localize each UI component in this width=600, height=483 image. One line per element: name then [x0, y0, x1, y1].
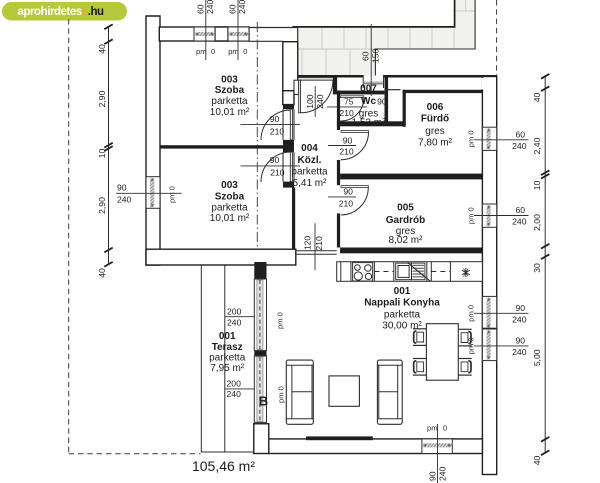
- svg-text:pm 0: pm 0: [276, 312, 285, 329]
- svg-text:gres: gres: [425, 126, 444, 137]
- wall right exterior: [482, 77, 496, 475]
- svg-text:60: 60: [515, 129, 525, 139]
- entry west corner piece: [294, 80, 299, 94]
- svg-text:240: 240: [237, 0, 247, 14]
- svg-text:240: 240: [512, 314, 527, 324]
- svg-text:210: 210: [270, 126, 285, 136]
- svg-text:200: 200: [227, 378, 242, 388]
- svg-text:90: 90: [343, 135, 353, 145]
- terrace glazed door 2 (200/240) B: [254, 356, 266, 422]
- door gardrob (90/210): [341, 186, 368, 188]
- leader window top2: [237, 0, 239, 60]
- svg-text:pm 0: pm 0: [277, 386, 286, 403]
- label 90/240 south window: [437, 424, 439, 483]
- leader window wc: [370, 24, 372, 96]
- svg-text:2,40: 2,40: [532, 137, 542, 154]
- label 90/240 nappali window1: [474, 312, 529, 314]
- label 200/240 terrace door1: [225, 316, 254, 318]
- svg-text:007: 007: [360, 83, 377, 94]
- draining rack: [408, 263, 431, 282]
- svg-text:2,90: 2,90: [97, 90, 107, 107]
- terrace outline: [201, 265, 254, 452]
- svg-text:Közl.: Közl.: [298, 155, 322, 166]
- door wc (75/210): [340, 96, 364, 98]
- kitchen counter: [337, 262, 483, 282]
- chair right bottom: [458, 359, 471, 376]
- label 90/240 nappali window2: [474, 345, 529, 347]
- svg-text:240: 240: [205, 0, 215, 14]
- svg-text:210: 210: [314, 236, 324, 251]
- shaft south edge line: [385, 89, 401, 91]
- svg-text:100: 100: [305, 94, 315, 109]
- svg-text:75: 75: [344, 96, 354, 106]
- svg-text:001: 001: [219, 331, 236, 342]
- svg-text:parketta: parketta: [211, 203, 248, 214]
- terrace glazed door 1 (200/240): [254, 279, 266, 351]
- svg-text:pm: pm: [228, 47, 239, 56]
- svg-text:5,00: 5,00: [532, 349, 542, 366]
- svg-text:7,95 m²: 7,95 m²: [210, 363, 245, 374]
- svg-text:8,02 m²: 8,02 m²: [389, 235, 424, 246]
- label 90/210 door 003 upper: [241, 124, 301, 126]
- svg-text:001: 001: [394, 286, 411, 297]
- svg-text:parketta: parketta: [211, 96, 248, 107]
- wall wc north: [337, 91, 385, 95]
- chair right top: [458, 329, 471, 346]
- svg-text:10: 10: [97, 149, 107, 159]
- svg-text:parketta: parketta: [291, 166, 328, 177]
- lichthof tiled area: [298, 0, 475, 76]
- koezl south opening threshold lines: [296, 251, 337, 254]
- svg-text:90: 90: [270, 114, 280, 124]
- svg-text:90: 90: [270, 155, 280, 165]
- svg-text:0: 0: [443, 424, 447, 433]
- wall fuerdo west upper: [403, 90, 406, 127]
- wall sw corner block: [254, 424, 269, 454]
- svg-text:240: 240: [227, 317, 242, 327]
- sofa right: [377, 360, 402, 424]
- wall wc east: [385, 77, 389, 122]
- svg-text:90: 90: [515, 303, 525, 313]
- svg-text:200: 200: [227, 306, 242, 316]
- door fuerdo (90/210): [341, 131, 369, 133]
- label 100/240 entrance door: [314, 86, 316, 117]
- door entrance leaf: [299, 80, 301, 113]
- svg-text:60: 60: [361, 51, 371, 61]
- svg-text:5,41 m²: 5,41 m²: [293, 178, 328, 189]
- window top 1 (60/240): [194, 27, 215, 41]
- svg-text:Gardrób: Gardrób: [386, 215, 425, 226]
- svg-text:004: 004: [301, 143, 318, 154]
- svg-text:Wc: Wc: [361, 96, 376, 107]
- label 90/240 left window: [116, 192, 182, 194]
- label 90/210 fuerdo door: [328, 145, 356, 147]
- wall wc south: [337, 121, 406, 126]
- wall top exterior (room 003): [159, 27, 249, 41]
- svg-text:10: 10: [532, 181, 542, 191]
- label 90/210 gardrob door: [328, 196, 356, 198]
- svg-text:Nappali Konyha: Nappali Konyha: [364, 298, 440, 309]
- sofa left: [286, 360, 313, 424]
- svg-text:210: 210: [339, 198, 354, 208]
- svg-text:006: 006: [427, 102, 444, 113]
- dimension chain left: [104, 24, 112, 266]
- wall jamb door2 south: [283, 182, 294, 188]
- svg-text:60: 60: [515, 205, 525, 215]
- svg-text:7,80 m²: 7,80 m²: [418, 138, 453, 149]
- svg-text:30,00 m²: 30,00 m²: [382, 320, 422, 331]
- svg-text:pm 0: pm 0: [467, 207, 476, 224]
- svg-text:90: 90: [117, 183, 127, 193]
- svg-text:0: 0: [243, 47, 247, 56]
- door entrance (100/240): [300, 80, 333, 113]
- svg-text:B: B: [259, 394, 268, 409]
- svg-text:60: 60: [228, 4, 238, 14]
- section dash-dot line: [256, 22, 258, 283]
- svg-text:210: 210: [339, 146, 354, 156]
- window nappali south (90/240): [422, 439, 453, 454]
- door1 jamb edges: [283, 109, 294, 140]
- wall lichthof south: [298, 75, 364, 78]
- lichthof borders: [293, 0, 455, 27]
- wall koezl west lower thin: [292, 188, 295, 251]
- boundary dashed line bottom: [69, 453, 201, 455]
- label 75/210 wc door: [327, 106, 367, 108]
- svg-text:210: 210: [270, 168, 285, 178]
- logo aprohirdetese.hu: [2, 2, 127, 21]
- svg-text:Szoba: Szoba: [215, 85, 245, 96]
- wall hollow koezl west upper: [283, 42, 298, 91]
- svg-text:90: 90: [427, 471, 437, 481]
- svg-text:parketta: parketta: [384, 310, 421, 321]
- window mullion: [482, 328, 496, 331]
- sink: [396, 263, 412, 280]
- wall jamb pier between doors: [283, 140, 294, 152]
- svg-text:240: 240: [227, 389, 242, 399]
- svg-text:240: 240: [117, 195, 132, 205]
- svg-text:2,90: 2,90: [97, 197, 107, 214]
- entry east jamb block: [333, 77, 337, 94]
- svg-text:240: 240: [512, 217, 527, 227]
- label 90/210 door 003 lower: [241, 165, 301, 167]
- svg-text:90: 90: [377, 97, 387, 107]
- svg-text:40: 40: [97, 44, 107, 54]
- wall nappali west top block: [254, 262, 266, 279]
- svg-text:003: 003: [221, 180, 238, 191]
- window top 2 (60/240): [228, 27, 249, 41]
- window nappali right 1 (90/240): [482, 296, 496, 329]
- svg-text:60: 60: [195, 4, 205, 14]
- coffee table: [329, 376, 359, 406]
- boundary dashed line left: [68, 19, 70, 454]
- svg-text:40: 40: [532, 93, 542, 103]
- wall left exterior: [146, 16, 160, 265]
- svg-text:240: 240: [315, 94, 325, 109]
- window left (90/240): [146, 177, 160, 209]
- window fuerdo right (60/240): [482, 127, 496, 150]
- leader window top1: [205, 0, 207, 60]
- svg-text:40: 40: [97, 268, 107, 278]
- label 60/240 fuerdo window: [474, 139, 529, 141]
- svg-text:105,46 m²: 105,46 m²: [192, 458, 255, 474]
- label 200/240 terrace door2: [225, 388, 254, 390]
- wall fuerdo north: [403, 90, 485, 93]
- wall between rooms 003: [160, 145, 283, 148]
- entry area top line: [249, 27, 298, 29]
- svg-text:Terasz: Terasz: [212, 342, 243, 353]
- window gardrob right (60/240): [482, 204, 496, 227]
- dark rail segment in south wall: [306, 436, 373, 440]
- svg-text:40: 40: [532, 456, 542, 466]
- dining table: [426, 324, 458, 381]
- wall pier between top windows: [215, 27, 228, 41]
- svg-text:10,01 m²: 10,01 m²: [210, 213, 250, 224]
- wall south of lower room 003: [146, 249, 296, 265]
- svg-text:30: 30: [532, 263, 542, 273]
- svg-text:parketta: parketta: [209, 352, 246, 363]
- svg-text:10,01 m²: 10,01 m²: [210, 107, 250, 118]
- door room 003 lower (90/210): [261, 152, 291, 182]
- boundary dashed line top right: [496, 0, 498, 77]
- svg-text:0: 0: [211, 47, 215, 56]
- wall jamb door1 north: [283, 105, 294, 110]
- svg-text:aprohirdetese.hu: aprohirdetese.hu: [18, 6, 105, 18]
- wall nappali south: [269, 439, 483, 454]
- svg-text:005: 005: [397, 203, 414, 214]
- svg-text:2,00: 2,00: [532, 214, 542, 231]
- svg-text:pm: pm: [427, 424, 438, 433]
- svg-text:pm 0: pm 0: [467, 305, 476, 322]
- stove 4 burners: [353, 263, 373, 281]
- wall nappali west mid pier: [254, 351, 266, 356]
- svg-text:150: 150: [371, 48, 381, 63]
- entry area bottom line: [249, 40, 283, 42]
- svg-text:Szoba: Szoba: [215, 192, 245, 203]
- label 60/240 gardrob window: [474, 215, 529, 217]
- window nappali right 2 (90/240): [482, 329, 496, 361]
- chair left top: [413, 329, 426, 346]
- chair left bottom: [413, 359, 426, 376]
- wall koezl east segments: [337, 91, 340, 130]
- svg-text:240: 240: [512, 347, 527, 357]
- svg-text:pm: pm: [196, 47, 207, 56]
- wall fuerdo gardrob divider: [340, 174, 484, 180]
- svg-text:1,53 m²: 1,53 m²: [352, 118, 387, 129]
- svg-text:pm 0: pm 0: [168, 186, 177, 203]
- svg-text:120: 120: [302, 236, 312, 251]
- svg-text:240: 240: [437, 466, 447, 481]
- wall gardrob south: [340, 248, 484, 254]
- dimension chain right: [541, 74, 549, 455]
- svg-text:Fürdő: Fürdő: [421, 114, 449, 125]
- door room 003 upper (90/210): [261, 110, 291, 140]
- svg-text:90: 90: [515, 336, 525, 346]
- lichthof west edge: [297, 28, 299, 81]
- svg-text:90: 90: [343, 186, 353, 196]
- label 120/210 koezl opening: [314, 223, 316, 270]
- svg-text:003: 003: [221, 75, 238, 86]
- svg-text:pm 0: pm 0: [467, 337, 476, 354]
- window wc lichthof (60/150): [363, 75, 383, 88]
- entry head lines: [298, 78, 333, 80]
- svg-text:240: 240: [512, 141, 527, 151]
- svg-text:pm 0: pm 0: [467, 130, 476, 147]
- fridge snowflake: [462, 268, 470, 277]
